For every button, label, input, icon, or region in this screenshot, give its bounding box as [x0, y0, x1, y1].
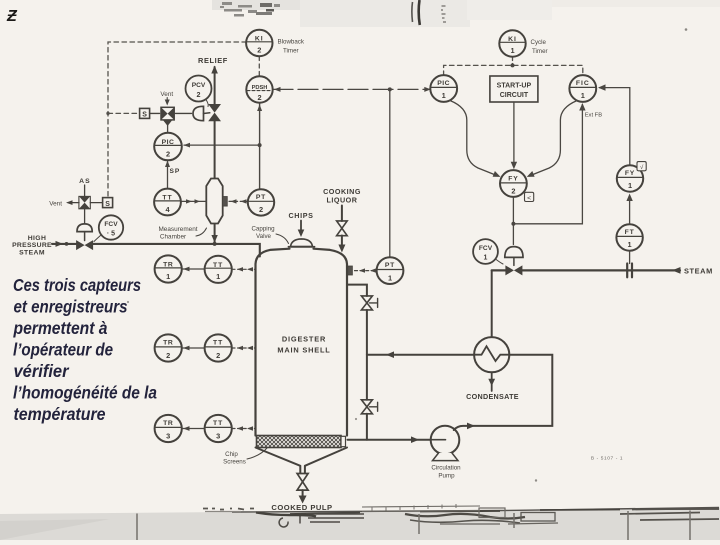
instrument TT-3	[205, 415, 232, 442]
wire: FY-2 output down to junction	[512, 197, 514, 224]
svg-text:Timer: Timer	[532, 48, 548, 55]
svg-text:FY: FY	[508, 176, 518, 183]
svg-text:permettent à: permettent à	[13, 318, 108, 338]
svg-text:3: 3	[216, 431, 220, 440]
box: START-UP CIRCUIT	[490, 76, 538, 102]
svg-text:TR: TR	[163, 420, 173, 427]
instrument FT-1	[616, 224, 642, 250]
svg-text:1: 1	[442, 91, 446, 100]
svg-text:SP: SP	[170, 168, 181, 175]
wire: dashed vessel to TT-1	[232, 268, 255, 270]
instrument PT-1	[377, 257, 404, 284]
pipe: cooked pulp outlet arrow	[302, 490, 304, 497]
svg-text:AS: AS	[79, 178, 91, 185]
svg-text:· 5: · 5	[107, 231, 115, 238]
actuator dome of FCV-1	[505, 247, 523, 258]
svg-text:START-UP: START-UP	[497, 82, 532, 89]
pipe: HX return to riser	[367, 354, 474, 356]
svg-text:Vent: Vent	[49, 200, 62, 207]
svg-text:STEAM: STEAM	[19, 249, 45, 256]
svg-text:B - 5107 - 1: B - 5107 - 1	[591, 456, 623, 462]
svg-text:PT: PT	[385, 262, 395, 269]
node: relief line junction on steam line	[213, 242, 217, 246]
svg-text:TT: TT	[213, 340, 223, 347]
wire: dashed branch to solenoid S (upper)	[108, 112, 139, 114]
wire: dashed vessel to TT-3	[232, 428, 255, 430]
actuator dome (sideways) of relief valve	[193, 106, 204, 120]
svg-text:Ext FB: Ext FB	[585, 113, 603, 119]
svg-text:MAIN SHELL: MAIN SHELL	[277, 345, 330, 354]
svg-text:PT: PT	[256, 194, 266, 201]
wire: PT-1 riser	[389, 89, 391, 257]
capacitor-like: measurement chamber vessel	[206, 179, 222, 224]
nozzle: vessel to PT-1	[348, 266, 353, 275]
instrument FCV-1 with leader	[473, 239, 498, 264]
node: junction of PT-1 riser with PDSH/PIC-1 line	[388, 87, 392, 91]
wire: junction down to FCV-1 actuator	[512, 224, 514, 245]
svg-text:1: 1	[166, 272, 170, 281]
wire: Ext FB from junction up to FIC-1	[513, 105, 582, 224]
svg-text:S: S	[105, 201, 110, 208]
wire: FIC-1 output curve to FY-2	[529, 101, 577, 177]
scan artifact: specks	[685, 28, 688, 31]
pipe: vessel to recirculation riser	[347, 285, 367, 296]
svg-text:TT: TT	[213, 262, 223, 269]
instrument FIC-1	[569, 75, 596, 102]
French annotation text	[13, 275, 158, 424]
wire: dashed chamber to PT-2	[229, 200, 248, 202]
wire: FT-1 up to FY-1	[629, 197, 631, 225]
svg-text:1: 1	[581, 91, 585, 100]
svg-text:2: 2	[166, 149, 170, 158]
svg-text:FT: FT	[625, 229, 635, 236]
svg-text:1: 1	[510, 46, 514, 55]
wire: dashed vessel to TT-2	[232, 347, 255, 349]
pipe: high pressure steam line	[52, 244, 260, 257]
wire: TT-1 to TR-1	[182, 268, 205, 270]
svg-text:Cycle: Cycle	[531, 39, 547, 46]
relief line through measurement chamber to steam line	[214, 224, 216, 244]
svg-text:FY: FY	[625, 170, 635, 177]
vessel: digester main shell outline	[256, 249, 348, 436]
instrument TT-4	[154, 189, 181, 216]
svg-text:2: 2	[259, 205, 263, 214]
svg-text:FIC: FIC	[576, 80, 590, 87]
scan artifact: speckle cluster top-left	[220, 2, 280, 17]
chip screens hatched band	[257, 436, 342, 448]
wire: AS valve to S box	[90, 202, 102, 204]
instrument FY-1	[617, 165, 643, 191]
vessel cone bottom	[256, 448, 348, 474]
svg-text:Valve: Valve	[256, 233, 272, 240]
capping valve dome on vessel top	[291, 239, 313, 247]
svg-text:vérifier: vérifier	[14, 361, 70, 381]
svg-text:Chamber: Chamber	[160, 234, 187, 241]
wire: dashed signal from KI-2 left and down to solenoid S (lower)	[108, 42, 247, 197]
svg-text:2: 2	[166, 351, 170, 360]
svg-text:1: 1	[484, 255, 488, 262]
node: dashed junction	[106, 112, 109, 115]
svg-text:KI: KI	[255, 36, 264, 43]
wire: dashed KI-2 to PDSH-2	[258, 57, 260, 77]
pipe: recirculation riser mid	[366, 310, 368, 400]
scan artifact: dark vertical strokes top	[411, 2, 414, 22]
wire: S to vent valve	[150, 112, 160, 114]
wire: SP setpoint TT-4 to PIC-2	[167, 162, 169, 189]
instrument TT-2	[205, 334, 232, 361]
instrument PDSH-2	[246, 76, 272, 102]
svg-text:Timer: Timer	[283, 48, 299, 55]
solenoid S lower box	[103, 198, 113, 208]
svg-text:TR: TR	[163, 340, 173, 347]
svg-text:l’opérateur de: l’opérateur de	[13, 340, 113, 360]
wire: FY-1 up and left into FIC-1	[600, 88, 630, 166]
wire: PDSH-2 to PT-2 riser with up arrow	[259, 104, 261, 190]
valve: FCV-5 steam valve (bowtie)	[76, 240, 85, 250]
wire: TT-4 to chamber	[181, 200, 207, 202]
svg-text:et enregistreurs: et enregistreurs	[14, 297, 128, 317]
svg-text:PDSH: PDSH	[252, 85, 268, 91]
svg-text:2: 2	[216, 351, 220, 360]
pipe: pump suction from vessel bottom	[348, 439, 431, 441]
svg-text:RELIEF: RELIEF	[198, 56, 228, 65]
valve: recirculation lower valve	[361, 400, 372, 407]
instrument TT-1	[205, 256, 232, 283]
wire: TT-3 to TR-3	[182, 428, 205, 430]
wire: vent valve to PIC-2	[167, 125, 169, 133]
pipe: condensate outlet	[491, 372, 493, 391]
svg-text:S: S	[142, 112, 147, 119]
svg-text:DIGESTER: DIGESTER	[282, 335, 326, 344]
valve: recirculation upper valve	[361, 296, 372, 303]
wire: PIC-1 output curve to FY-2	[450, 101, 498, 177]
svg-text:PIC: PIC	[437, 80, 450, 87]
svg-text:2: 2	[197, 90, 201, 99]
pipe: cooking liquor line	[341, 206, 343, 248]
instrument PIC-2	[154, 133, 182, 161]
svg-text:TR: TR	[163, 262, 173, 269]
wire: AS valve down to FCV-5 dome	[84, 209, 86, 224]
svg-text:CHIPS: CHIPS	[289, 211, 314, 220]
instrument TR-2	[155, 334, 182, 361]
svg-text:LIQUOR: LIQUOR	[327, 196, 358, 205]
node: junction on PDSH riser	[258, 143, 262, 147]
svg-text:CONDENSATE: CONDENSATE	[466, 392, 519, 401]
svg-text:Circulation: Circulation	[431, 464, 461, 471]
svg-text:Blowback: Blowback	[278, 38, 305, 45]
svg-text:FCV: FCV	[479, 245, 493, 252]
svg-text:3: 3	[166, 431, 170, 440]
svg-text:FCV: FCV	[104, 221, 118, 228]
svg-text:2: 2	[257, 93, 261, 102]
orifice flanges on steam line	[627, 264, 632, 278]
svg-text:Capping: Capping	[251, 225, 275, 232]
svg-text:2: 2	[257, 46, 261, 55]
valve: 3-way vent valve	[161, 107, 174, 120]
svg-text:Screens: Screens	[223, 458, 246, 465]
wire: vent valve to actuator dome	[175, 112, 191, 114]
pump: circulation pump	[431, 426, 460, 455]
pipe: steam line right	[492, 269, 680, 271]
node: dashed junction below KI-1	[511, 63, 515, 67]
valve: cooked pulp blow valve	[297, 474, 308, 482]
instrument FCV-5 with leader	[99, 215, 123, 239]
pipe: pump discharge up to HX	[454, 355, 553, 430]
solenoid S upper box	[140, 108, 150, 118]
svg-text:PCV: PCV	[192, 82, 206, 89]
svg-text:1: 1	[628, 181, 632, 190]
svg-text:<: <	[527, 195, 531, 202]
wire: long-dash signal PDSH-2 / PT-1 riser / PIC-1	[273, 88, 430, 90]
svg-text:Measurement: Measurement	[158, 226, 197, 233]
wire: signal into PIC-2 from PDSH riser	[184, 144, 260, 146]
svg-text:2: 2	[511, 187, 515, 196]
wire: START-UP CIRCUIT output to FY-2	[513, 102, 515, 164]
svg-text:1: 1	[388, 273, 392, 282]
valve: FCV-1 steam valve (bowtie)	[505, 265, 514, 275]
actuator dome of FCV-5	[77, 224, 92, 232]
svg-text:1: 1	[628, 240, 632, 249]
svg-text:TT: TT	[162, 195, 172, 202]
scan artifact: top gray band	[212, 0, 467, 10]
instrument KI-1	[499, 30, 525, 56]
wire: dashed KI-1 drop	[512, 57, 514, 66]
svg-text:température: température	[14, 404, 106, 424]
svg-text:1: 1	[216, 272, 220, 281]
svg-text:l’homogénéité de la: l’homogénéité de la	[13, 383, 157, 403]
wire: dashed vessel to PT-1	[355, 270, 377, 272]
svg-text:TT: TT	[213, 420, 223, 427]
relief line vertical	[214, 67, 216, 179]
pipe: recirculation riser bottom	[366, 414, 368, 440]
scan artifact: bottom band streaks	[232, 508, 719, 513]
instrument PT-2	[248, 189, 274, 215]
valve: cooking liquor valve	[337, 221, 348, 228]
svg-text:PRESSURE: PRESSURE	[12, 242, 52, 249]
svg-text:PIC: PIC	[162, 139, 175, 146]
pipe: steam down to heat exchanger	[491, 270, 493, 337]
svg-text:Ƶ: Ƶ	[6, 8, 18, 25]
scan artifact: bottom gray band	[0, 508, 720, 541]
svg-text:KI: KI	[508, 36, 517, 43]
svg-text:Pump: Pump	[438, 472, 455, 479]
svg-text:COOKED PULP: COOKED PULP	[271, 503, 332, 512]
svg-text:HIGH: HIGH	[28, 235, 47, 242]
svg-text:CIRCUIT: CIRCUIT	[500, 92, 529, 99]
instrument KI-2	[246, 30, 272, 56]
instrument TR-3	[155, 415, 182, 442]
instrument PCV-2 with leader	[186, 76, 212, 102]
instrument PIC-1	[430, 75, 457, 102]
heat exchanger	[474, 337, 509, 372]
instrument FY-2	[500, 170, 527, 197]
svg-text:Chip: Chip	[225, 451, 238, 458]
svg-text:Ces trois capteurs: Ces trois capteurs	[13, 275, 141, 295]
box: low-select symbol at FY-2	[525, 192, 534, 201]
valve: AS solenoid vent valve (vertical bowtie)	[79, 196, 90, 202]
valve: relief valve PCV-2 (vertical bowtie)	[208, 104, 221, 113]
wire: TT-2 to TR-2	[182, 347, 205, 349]
wire: FT-1 down to orifice	[629, 251, 631, 264]
instrument TR-1	[155, 255, 182, 282]
svg-text:STEAM: STEAM	[684, 266, 713, 275]
svg-text:Vent: Vent	[160, 91, 173, 98]
box: square-root symbol at FY-1	[637, 162, 646, 171]
node: FY-2 output junction	[511, 222, 515, 226]
wire: dashed KI-1 header to PIC-1 and FIC-1	[444, 65, 583, 75]
nozzle on chamber right	[223, 197, 228, 207]
